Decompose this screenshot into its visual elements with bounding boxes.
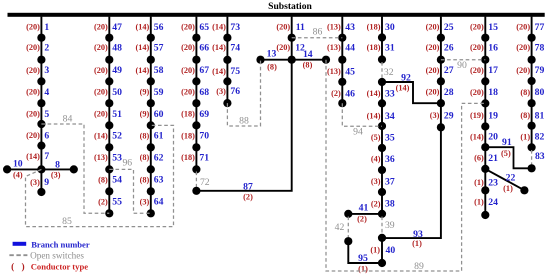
svg-text:(20): (20) <box>426 88 440 97</box>
bus node 16 <box>481 56 489 64</box>
svg-text:57: 57 <box>154 43 164 54</box>
svg-text:(20): (20) <box>26 110 40 119</box>
wire branch 50 <box>108 81 110 103</box>
wire branch 73 <box>226 17 228 38</box>
svg-text:(3): (3) <box>30 178 40 187</box>
wire branch 82 <box>531 126 533 148</box>
svg-text:46: 46 <box>345 88 355 99</box>
svg-text:35: 35 <box>385 132 395 143</box>
svg-text:51: 51 <box>112 109 122 120</box>
substation bus bar <box>8 13 545 17</box>
svg-text:69: 69 <box>199 109 209 120</box>
wire branch 10 <box>7 168 41 170</box>
svg-text:(14): (14) <box>212 67 226 76</box>
bus node 63 <box>147 187 155 195</box>
svg-text:(20): (20) <box>94 43 108 52</box>
wire branch 62 <box>150 147 152 169</box>
svg-text:(3): (3) <box>430 111 440 120</box>
svg-text:(13): (13) <box>327 43 341 52</box>
svg-text:(8): (8) <box>520 111 530 120</box>
svg-text:(20): (20) <box>470 88 484 97</box>
svg-text:43: 43 <box>345 22 355 33</box>
bus node 13 <box>256 56 264 64</box>
open switch branch 83 (dashed) <box>531 150 533 166</box>
svg-text:64: 64 <box>154 197 164 208</box>
wire branch 68 <box>195 81 197 103</box>
svg-text:54: 54 <box>112 175 122 186</box>
svg-text:(8): (8) <box>140 153 150 162</box>
bus node 8 <box>70 165 78 173</box>
svg-text:86: 86 <box>313 27 323 38</box>
svg-text:55: 55 <box>112 197 122 208</box>
svg-text:32: 32 <box>384 67 394 78</box>
open tie switch 85 (bus 7 - bus 60) <box>26 125 174 226</box>
wire branch 56 <box>150 17 152 38</box>
bus node 43 <box>338 34 346 42</box>
svg-text:(1): (1) <box>412 239 422 248</box>
bus node 77 <box>528 34 536 42</box>
bus node 10 <box>3 165 11 173</box>
svg-text:8: 8 <box>55 160 60 171</box>
svg-text:(8): (8) <box>98 175 108 184</box>
open tie switch 88 (bus 13 - bus 76) <box>227 60 260 126</box>
bus node 15 <box>481 34 489 42</box>
wire branch 25 <box>440 17 442 38</box>
bus node 66 <box>192 56 200 64</box>
wire branch 57 <box>150 38 152 60</box>
wire branch 44 <box>341 38 343 60</box>
svg-text:58: 58 <box>154 65 164 76</box>
svg-text:(14): (14) <box>135 23 149 32</box>
wire branch 87 (closed tie 12-72) <box>196 60 291 191</box>
svg-text:(14): (14) <box>94 131 108 140</box>
bus node 65 <box>192 34 200 42</box>
svg-text:(3): (3) <box>140 197 150 206</box>
bus node 28 <box>437 99 445 107</box>
svg-text:(20): (20) <box>26 66 40 75</box>
wire branch 23 <box>484 169 486 190</box>
wire branch 41 <box>348 213 382 215</box>
wire branch 81 <box>531 103 533 126</box>
svg-text:1: 1 <box>44 22 49 33</box>
bus node 29 <box>437 123 445 131</box>
svg-text:59: 59 <box>154 87 164 98</box>
svg-text:42: 42 <box>335 222 345 233</box>
wire branch 51 <box>108 103 110 125</box>
svg-text:47: 47 <box>112 22 122 33</box>
svg-text:(20): (20) <box>26 43 40 52</box>
svg-text:24: 24 <box>488 197 498 208</box>
svg-text:(2): (2) <box>98 197 108 206</box>
svg-text:85: 85 <box>62 216 72 227</box>
svg-text:6: 6 <box>44 130 49 141</box>
svg-text:37: 37 <box>385 176 395 187</box>
wire branch 1 <box>40 17 42 38</box>
wire branch 13 <box>261 59 292 61</box>
wire branch 31 <box>381 38 383 60</box>
wire branch 69 <box>195 103 197 125</box>
svg-text:79: 79 <box>535 65 545 76</box>
wire branch 59 <box>150 81 152 103</box>
bus node 37 <box>378 188 386 196</box>
bus node 72 <box>192 187 200 195</box>
bus node 55 <box>105 209 113 217</box>
svg-text:(14): (14) <box>212 23 226 32</box>
wire branch 11 <box>291 17 293 38</box>
svg-text:11: 11 <box>296 22 305 33</box>
wire branch 6 <box>40 124 42 146</box>
bus node 35 <box>378 144 386 152</box>
bus node 61 <box>147 143 155 151</box>
svg-text:(9): (9) <box>140 110 150 119</box>
wire branch 14 <box>292 59 326 61</box>
bus node 62 <box>147 165 155 173</box>
bus node 34 <box>378 122 386 130</box>
svg-text:80: 80 <box>535 87 545 98</box>
open switch branch 42 (dashed) <box>347 217 349 239</box>
svg-text:2: 2 <box>44 43 49 54</box>
legend: branch number symbol <box>13 242 27 246</box>
bus node 44 <box>338 56 346 64</box>
legend: open switches symbol <box>9 254 27 256</box>
svg-text:67: 67 <box>199 65 209 76</box>
bus node 27 <box>437 77 445 85</box>
svg-text:27: 27 <box>444 65 454 76</box>
bus node 83 <box>528 164 536 172</box>
bus node 41 <box>344 210 352 218</box>
wire branch 74 <box>226 38 228 60</box>
svg-text:73: 73 <box>230 22 240 33</box>
wire branch 46 <box>341 82 343 103</box>
svg-text:17: 17 <box>488 65 498 76</box>
bus node 22 <box>520 186 528 194</box>
wire branch 47 <box>108 17 110 38</box>
svg-text:70: 70 <box>199 131 209 142</box>
bus node 56 <box>147 34 155 42</box>
svg-text:(18): (18) <box>367 43 381 52</box>
svg-text:(14): (14) <box>396 84 410 93</box>
bus node 46 <box>338 99 346 107</box>
bus node 50 <box>105 99 113 107</box>
svg-text:45: 45 <box>345 66 355 77</box>
svg-text:(20): (20) <box>94 88 108 97</box>
wire branch 52 <box>108 125 110 147</box>
svg-text:(14): (14) <box>470 132 484 141</box>
svg-text:(18): (18) <box>181 153 195 162</box>
bus node 76 <box>223 99 231 107</box>
wire branch 35 <box>381 126 383 148</box>
svg-text:5: 5 <box>44 109 49 120</box>
bus node 48 <box>105 56 113 64</box>
svg-text:(20): (20) <box>516 66 530 75</box>
svg-text:65: 65 <box>199 22 209 33</box>
svg-text:20: 20 <box>488 132 498 143</box>
bus node 38 <box>378 210 386 218</box>
svg-text:74: 74 <box>230 43 240 54</box>
bus node 40 <box>378 259 386 267</box>
svg-text:(1): (1) <box>503 184 513 193</box>
wire branch 3 <box>40 60 42 82</box>
svg-text:(5): (5) <box>501 149 511 158</box>
open tie switch 84 (bus 5 - bus 55) <box>41 124 109 213</box>
bus node 42 <box>344 237 352 245</box>
bus node 21 <box>481 165 489 173</box>
svg-text:56: 56 <box>154 22 164 33</box>
open switch branch 72 (dashed) <box>195 172 197 189</box>
svg-text:(2): (2) <box>371 199 381 208</box>
svg-text:41: 41 <box>359 203 369 214</box>
svg-text:87: 87 <box>243 181 253 192</box>
bus node 31 <box>378 55 386 63</box>
svg-text:4: 4 <box>44 87 49 98</box>
svg-text:34: 34 <box>385 111 395 122</box>
bus node 20 <box>481 143 489 151</box>
svg-text:(18): (18) <box>181 110 195 119</box>
svg-text:(14): (14) <box>26 152 40 161</box>
wire branch 80 <box>531 81 533 103</box>
bus node 12 <box>288 56 296 64</box>
wire branch 92 (closed tie 28-32) <box>382 82 441 103</box>
svg-text:(5): (5) <box>371 133 381 142</box>
wire branch 33 <box>381 82 383 103</box>
open switch branch 39 (dashed) <box>381 217 383 236</box>
wire branch 12 <box>291 38 293 60</box>
wire branch 55 <box>108 191 110 213</box>
bus node 78 <box>528 56 536 64</box>
svg-text:(8): (8) <box>140 131 150 140</box>
bus node 14 <box>322 56 330 64</box>
svg-text:(8): (8) <box>140 175 150 184</box>
svg-text:(20): (20) <box>26 131 40 140</box>
svg-text:90: 90 <box>457 60 467 71</box>
svg-text:(20): (20) <box>26 23 40 32</box>
bus node 24 <box>481 211 489 219</box>
svg-text:25: 25 <box>444 22 454 33</box>
svg-text:(1): (1) <box>520 132 530 141</box>
svg-text:83: 83 <box>535 151 545 162</box>
svg-text:Substation: Substation <box>268 1 312 12</box>
svg-text:77: 77 <box>535 22 545 33</box>
svg-text:93: 93 <box>413 229 423 240</box>
wire branch 91 (closed tie 20-83) <box>485 147 531 168</box>
bus node 75 <box>223 77 231 85</box>
svg-text:16: 16 <box>488 43 498 54</box>
open tie switch 89 (bus 14 - bus 18) <box>326 60 485 271</box>
svg-text:(14): (14) <box>135 66 149 75</box>
svg-text:(3): (3) <box>51 170 61 179</box>
open tie switch 90 (bus 16 - bus 26) <box>441 59 485 61</box>
open switch branch 32 (dashed) <box>381 62 383 79</box>
wire branch 53 <box>108 147 110 169</box>
svg-text:52: 52 <box>112 131 122 142</box>
svg-text:30: 30 <box>385 22 395 33</box>
svg-text:88: 88 <box>239 115 249 126</box>
wire branch 8 <box>41 168 73 170</box>
bus node 3 <box>37 77 45 85</box>
bus node 9 <box>37 188 45 196</box>
bus node 53 <box>105 165 113 173</box>
svg-text:44: 44 <box>345 43 355 54</box>
svg-text:): ) <box>22 262 25 273</box>
svg-text:76: 76 <box>230 86 240 97</box>
wire branch 38 <box>381 192 383 214</box>
wire branch 17 <box>484 60 486 82</box>
bus node 33 <box>378 99 386 107</box>
wire branch 67 <box>195 60 197 82</box>
bus node 59 <box>147 99 155 107</box>
bus node 23 <box>481 186 489 194</box>
svg-text:(20): (20) <box>426 43 440 52</box>
wire branch 15 <box>484 17 486 38</box>
svg-text:(14): (14) <box>367 111 381 120</box>
svg-text:78: 78 <box>535 43 545 54</box>
bus node 52 <box>105 143 113 151</box>
svg-text:48: 48 <box>112 43 122 54</box>
svg-text:91: 91 <box>502 137 512 148</box>
bus node 81 <box>528 122 536 130</box>
wire branch 9 <box>40 169 42 192</box>
svg-text:Open switches: Open switches <box>30 250 84 260</box>
svg-text:36: 36 <box>385 154 395 165</box>
svg-text:84: 84 <box>63 114 73 125</box>
svg-text:(20): (20) <box>516 23 530 32</box>
svg-text:(20): (20) <box>94 66 108 75</box>
svg-text:(4): (4) <box>13 170 23 179</box>
bus node 71 <box>192 165 200 173</box>
wire branch 30 <box>381 17 383 38</box>
bus node 74 <box>223 56 231 64</box>
svg-text:Conductor type: Conductor type <box>31 261 89 271</box>
wire branch 29 <box>440 103 442 127</box>
svg-text:(6): (6) <box>474 154 484 163</box>
svg-text:3: 3 <box>44 65 49 76</box>
svg-text:75: 75 <box>230 66 240 77</box>
svg-text:(9): (9) <box>140 88 150 97</box>
svg-text:(20): (20) <box>94 23 108 32</box>
bus node 69 <box>192 121 200 129</box>
svg-text:18: 18 <box>488 87 498 98</box>
svg-text:40: 40 <box>386 245 396 256</box>
wire branch 26 <box>440 38 442 60</box>
wire branch 54 <box>108 169 110 191</box>
bus node 70 <box>192 143 200 151</box>
open tie switch 86 (bus 11 - bus 43) <box>292 37 343 39</box>
svg-text:53: 53 <box>112 152 122 163</box>
wire branch 71 <box>195 147 197 169</box>
wire branch 19 <box>484 103 486 126</box>
svg-text:(20): (20) <box>516 43 530 52</box>
wire branch 45 <box>341 60 343 82</box>
svg-text:68: 68 <box>199 87 209 98</box>
svg-text:96: 96 <box>122 158 132 169</box>
bus node 64 <box>147 209 155 217</box>
svg-text:(20): (20) <box>94 110 108 119</box>
bus node 68 <box>192 99 200 107</box>
svg-text:(2): (2) <box>243 193 253 202</box>
wire branch 76 <box>226 81 228 103</box>
svg-text:(20): (20) <box>181 43 195 52</box>
svg-text:(14): (14) <box>212 43 226 52</box>
svg-text:9: 9 <box>44 177 49 188</box>
svg-text:(14): (14) <box>135 43 149 52</box>
bus node 67 <box>192 77 200 85</box>
bus node 51 <box>105 121 113 129</box>
wire branch 77 <box>531 17 533 38</box>
svg-text:(18): (18) <box>181 131 195 140</box>
wire branch 49 <box>108 60 110 82</box>
svg-text:(8): (8) <box>520 88 530 97</box>
svg-text:82: 82 <box>535 132 545 143</box>
svg-text:81: 81 <box>535 110 545 121</box>
svg-text:21: 21 <box>488 153 498 164</box>
svg-text:(8): (8) <box>267 63 277 72</box>
bus node 19 <box>481 122 489 130</box>
bus node 25 <box>437 34 445 42</box>
svg-text:Branch number: Branch number <box>31 239 90 249</box>
bus node 30 <box>378 33 386 41</box>
svg-text:(20): (20) <box>470 43 484 52</box>
wire branch 22 (diagonal) <box>485 169 524 190</box>
svg-text:50: 50 <box>112 87 122 98</box>
svg-text:49: 49 <box>112 65 122 76</box>
svg-text:33: 33 <box>385 89 395 100</box>
svg-text:92: 92 <box>401 72 411 83</box>
svg-text:29: 29 <box>444 111 454 122</box>
wire branch 66 <box>195 38 197 60</box>
svg-text:26: 26 <box>444 43 454 54</box>
wire branch 79 <box>531 60 533 81</box>
svg-text:(2): (2) <box>331 89 341 98</box>
svg-text:(20): (20) <box>181 66 195 75</box>
bus node 7 <box>37 165 45 173</box>
svg-text:(20): (20) <box>426 23 440 32</box>
bus node 57 <box>147 56 155 64</box>
wire branch 5 <box>40 103 42 124</box>
wire branch 61 <box>150 125 152 147</box>
wire branch 27 <box>440 60 442 82</box>
bus node 32 <box>378 78 386 86</box>
wire branch 65 <box>195 17 197 38</box>
svg-text:(20): (20) <box>26 88 40 97</box>
svg-text:19: 19 <box>488 110 498 121</box>
bus node 39 <box>378 234 386 242</box>
bus node 47 <box>105 34 113 42</box>
svg-text:(19): (19) <box>470 111 484 120</box>
svg-text:(20): (20) <box>470 23 484 32</box>
wire branch 40 <box>381 238 383 263</box>
wire branch 4 <box>40 81 42 103</box>
bus node 5 <box>37 120 45 128</box>
svg-text:71: 71 <box>199 152 209 163</box>
wire branch 64 <box>150 191 152 213</box>
open tie switch 94 (bus 34 - bus 46) <box>342 103 382 126</box>
wire branch 24 <box>484 190 486 215</box>
wire branch 7 <box>40 146 42 170</box>
bus node 73 <box>223 34 231 42</box>
wire branch 18 <box>484 81 486 103</box>
bus node 60 <box>147 121 155 129</box>
wire branch 75 <box>226 60 228 82</box>
svg-text:66: 66 <box>199 43 209 54</box>
wire branch 2 <box>40 38 42 60</box>
bus node 1 <box>37 34 45 42</box>
bus node 45 <box>338 78 346 86</box>
bus node 6 <box>37 142 45 150</box>
wire branch 93 (closed tie 29-39) <box>382 127 441 238</box>
svg-text:14: 14 <box>303 49 313 60</box>
wire branch 63 <box>150 169 152 191</box>
wire branch 28 <box>440 81 442 103</box>
